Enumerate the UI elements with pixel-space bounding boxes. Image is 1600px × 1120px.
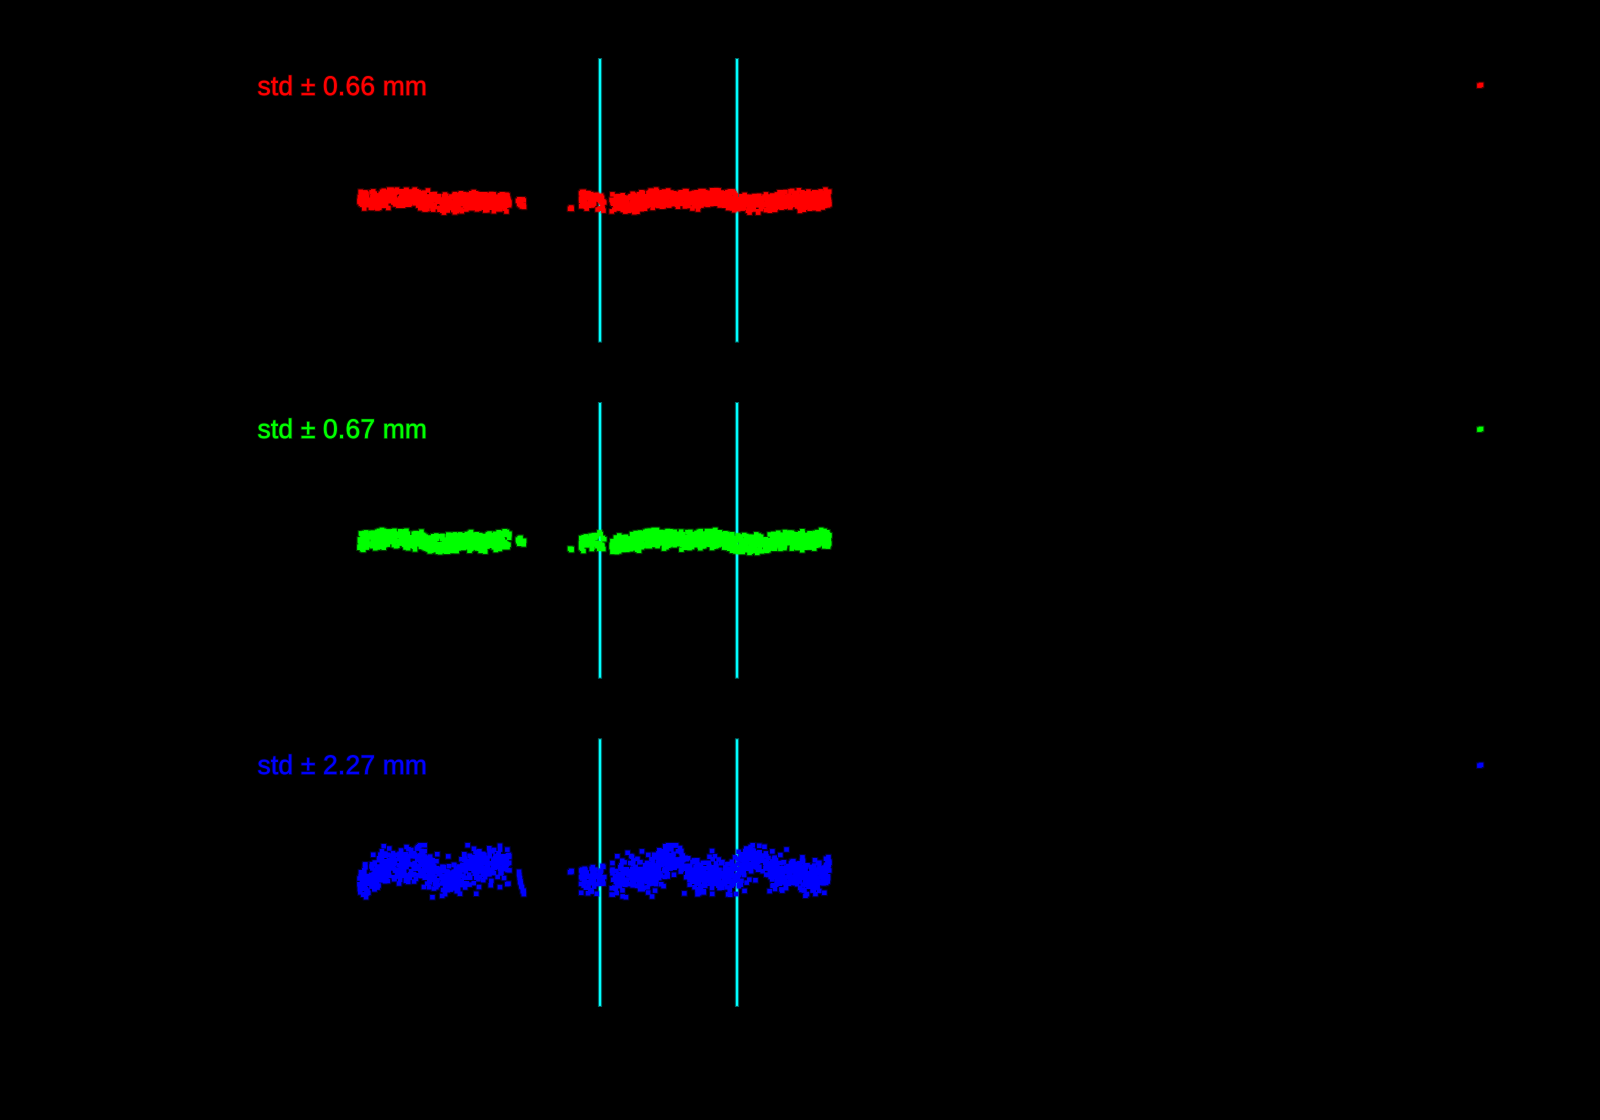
svg-text:std ± 2.27 mm: std ± 2.27 mm	[258, 750, 428, 780]
svg-text:std ± 0.67 mm: std ± 0.67 mm	[258, 414, 428, 444]
svg-text:std ± 0.66 mm: std ± 0.66 mm	[258, 71, 428, 101]
